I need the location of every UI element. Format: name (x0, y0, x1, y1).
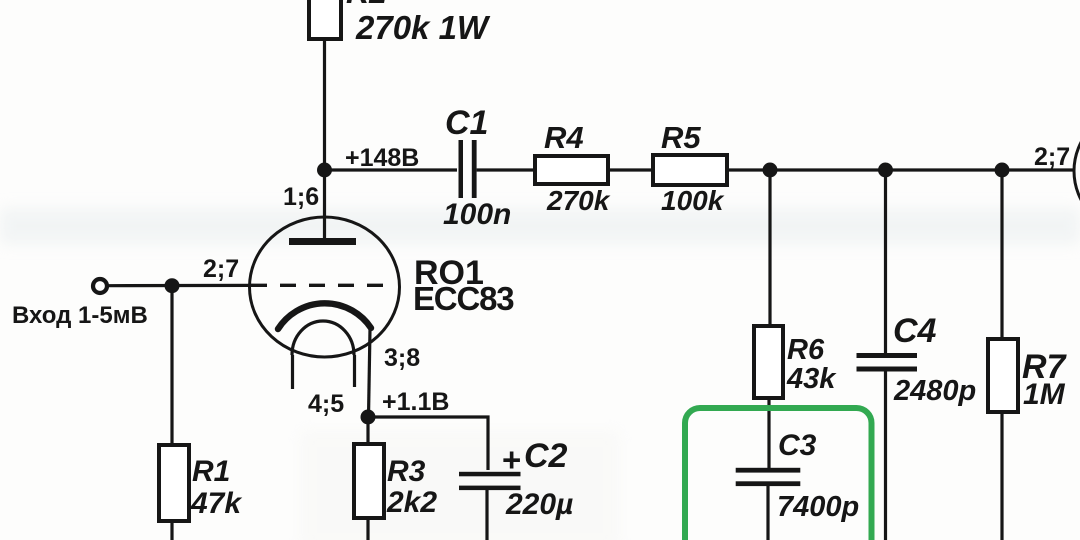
grid (dashed) (251, 284, 386, 287)
wire R7 down (1000, 412, 1003, 540)
svg-text:C1: C1 (445, 104, 488, 142)
input junction node (165, 278, 180, 293)
svg-text:2;7: 2;7 (1034, 143, 1070, 171)
svg-text:100k: 100k (661, 185, 725, 216)
wire cathode node to C2 (368, 417, 488, 470)
wire node to R7 (1000, 170, 1003, 339)
input terminal (93, 279, 107, 293)
svg-text:1M: 1M (1023, 378, 1066, 411)
wire C2 down (485, 490, 488, 540)
resistor R6 (754, 326, 837, 398)
tube RO1 envelope (250, 217, 515, 357)
svg-text:R5: R5 (661, 120, 701, 155)
svg-text:43k: 43k (786, 363, 837, 395)
svg-text:+148В: +148В (345, 144, 419, 172)
wire node to R1 (170, 286, 173, 445)
resistor R7 (988, 339, 1068, 412)
svg-text:47k: 47k (190, 487, 242, 520)
cathode lead wire (369, 329, 371, 417)
node +148V junction (317, 144, 419, 178)
svg-text:220µ: 220µ (505, 488, 573, 521)
svg-text:270k 1W: 270k 1W (355, 9, 491, 46)
resistor R3 (354, 444, 437, 519)
highlight box around C3 (green) (685, 408, 872, 540)
resistor R4 (535, 120, 611, 216)
junction node at C4 branch (878, 163, 893, 178)
svg-text:Вход 1-5мВ: Вход 1-5мВ (12, 302, 148, 329)
wire C3 down (766, 486, 769, 540)
svg-text:R6: R6 (787, 334, 825, 366)
wire node to C4 (884, 170, 887, 353)
wire R5 to right tube grid (727, 168, 1075, 171)
svg-text:+1.1В: +1.1В (382, 388, 449, 416)
wire R4 to R5 (608, 168, 653, 171)
svg-text:+: + (502, 441, 521, 478)
svg-text:2k2: 2k2 (386, 486, 437, 519)
svg-text:7400p: 7400p (777, 491, 859, 523)
svg-text:R4: R4 (544, 120, 584, 155)
svg-text:C3: C3 (778, 429, 817, 462)
svg-text:4;5: 4;5 (308, 390, 344, 418)
resistor R1 (159, 445, 242, 521)
resistor R5 (653, 120, 727, 216)
svg-text:100n: 100n (443, 198, 511, 231)
wire cathode node to R3 (366, 417, 369, 444)
capacitor C3 (736, 429, 860, 523)
svg-text:270k: 270k (546, 185, 611, 216)
tube envelope right (partial) (1074, 109, 1080, 233)
heater leg left (291, 355, 294, 389)
svg-text:C4: C4 (893, 312, 937, 350)
heater leg right (353, 355, 356, 387)
wire R3 down (366, 518, 369, 540)
svg-text:3;8: 3;8 (384, 344, 420, 372)
wire R6 to C3 (767, 398, 770, 468)
cathode node (361, 388, 450, 425)
resistor R2 (309, 0, 491, 46)
wire plate lead R2 to anode (323, 39, 326, 240)
svg-text:ECC83: ECC83 (413, 280, 514, 317)
anode plate bar (289, 238, 356, 245)
wire node to R6 (768, 170, 771, 326)
svg-text:R1: R1 (192, 455, 230, 488)
svg-text:C2: C2 (524, 437, 568, 475)
capacitor C4 (857, 312, 977, 407)
heater dome (292, 321, 354, 355)
capacitor C1 (443, 104, 511, 231)
wire node to C1 (325, 168, 458, 171)
svg-text:R3: R3 (387, 455, 426, 488)
wire R1 down (170, 521, 173, 540)
wire input to grid (108, 284, 251, 288)
svg-text:2480p: 2480p (893, 375, 976, 407)
junction node at R7 branch (995, 163, 1010, 178)
cathode arc (thick) (278, 303, 371, 329)
wire C4 down (884, 372, 887, 540)
wire C1 to R4 (477, 168, 535, 171)
capacitor C2 (electrolytic) (459, 437, 573, 521)
svg-text:2;7: 2;7 (203, 255, 239, 283)
junction node at R6 branch (763, 163, 778, 178)
svg-text:1;6: 1;6 (283, 183, 319, 211)
